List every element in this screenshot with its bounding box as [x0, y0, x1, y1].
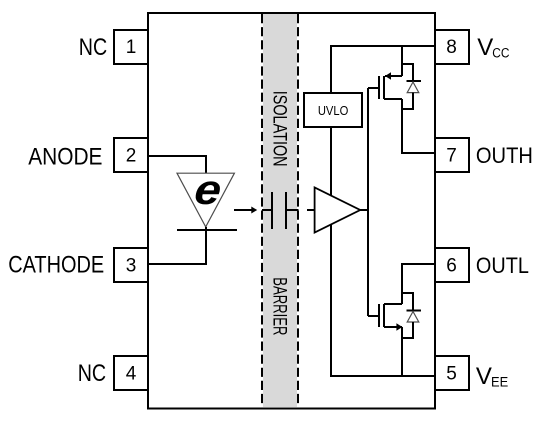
- svg-text:CATHODE: CATHODE: [8, 252, 104, 279]
- emitter LED triangle: [177, 173, 234, 227]
- isolation capacitor left lead: [262, 209, 272, 211]
- svg-text:8: 8: [446, 37, 457, 58]
- isolation capacitor right plate: [285, 192, 287, 229]
- svg-text:V: V: [477, 34, 493, 61]
- high-side drain wire to OUTH: [402, 99, 435, 153]
- svg-text:CC: CC: [492, 46, 509, 61]
- pin 5 VEE label: [476, 363, 508, 390]
- VCC rail wire: [331, 46, 435, 93]
- high-side body diode branch wire: [402, 64, 413, 81]
- high-side body diode triangle: [407, 82, 419, 93]
- light emission arrow: [234, 207, 257, 214]
- pin 4 box: [114, 356, 148, 390]
- isolation barrier left dashed line: [261, 14, 263, 407]
- high-side gate lead: [368, 87, 379, 89]
- svg-text:3: 3: [126, 256, 137, 277]
- pin 5 box: [435, 356, 469, 390]
- pin 1 box: [114, 30, 148, 64]
- svg-text:OUTL: OUTL: [476, 253, 529, 278]
- high-side MOSFET channel: [383, 76, 385, 99]
- low-side source stub: [384, 326, 402, 328]
- svg-text:UVLO: UVLO: [318, 104, 349, 118]
- high-side source stub: [385, 75, 402, 77]
- low-side drain stub: [384, 303, 402, 305]
- isolation capacitor left plate: [271, 192, 273, 229]
- svg-text:EE: EE: [491, 375, 508, 390]
- LED cathode bar: [177, 229, 237, 231]
- svg-text:V: V: [476, 363, 492, 390]
- svg-text:4: 4: [126, 364, 137, 385]
- svg-text:6: 6: [446, 256, 457, 277]
- svg-text:ISOLATION: ISOLATION: [269, 91, 291, 167]
- low-side MOSFET gate bar: [378, 304, 380, 327]
- gate bus wire: [367, 88, 369, 316]
- low-side body diode anode wire: [402, 322, 413, 338]
- low-side gate lead: [368, 315, 379, 317]
- high-side drain stub: [384, 98, 402, 100]
- low-side MOSFET channel: [383, 304, 385, 327]
- high-side body diode anode wire: [402, 93, 413, 109]
- high-side source arrow: [385, 72, 391, 80]
- isolation barrier band fill: [263, 14, 297, 407]
- isolation barrier right dashed line: [297, 14, 299, 407]
- high-side MOSFET gate bar: [378, 76, 380, 99]
- svg-text:BARRIER: BARRIER: [269, 277, 290, 335]
- svg-text:NC: NC: [79, 34, 107, 61]
- low-side body diode cathode bar: [407, 310, 422, 312]
- svg-text:ANODE: ANODE: [28, 144, 102, 171]
- svg-text:1: 1: [126, 37, 137, 58]
- isolation capacitor right lead: [286, 209, 299, 211]
- svg-text:5: 5: [446, 364, 457, 385]
- pin 8 VCC label: [477, 34, 510, 61]
- low-side body diode branch wire: [402, 293, 413, 311]
- low-side drain wire from OUTL: [402, 264, 435, 304]
- svg-text:7: 7: [446, 146, 457, 167]
- driver amplifier triangle: [315, 188, 361, 233]
- wire anode from pin2: [148, 156, 206, 173]
- high-side body diode cathode bar: [407, 80, 422, 82]
- svg-text:2: 2: [126, 146, 137, 167]
- amplifier output stub: [360, 209, 368, 211]
- pin 2 box: [114, 138, 148, 172]
- IC package outline: [148, 13, 435, 409]
- pin 7 box: [435, 138, 469, 172]
- low-side body diode triangle: [407, 312, 419, 323]
- svg-text:OUTH: OUTH: [476, 143, 533, 168]
- pin 6 box: [435, 248, 469, 282]
- low-side source arrow: [396, 323, 402, 331]
- svg-text:NC: NC: [78, 360, 106, 387]
- high-side source drop wire: [401, 46, 403, 76]
- UVLO block: [304, 93, 362, 127]
- amplifier input stub: [307, 209, 315, 211]
- pin 3 box: [114, 248, 148, 282]
- low-side source wire to VEE: [401, 327, 403, 376]
- UVLO to VEE wire: [331, 127, 435, 376]
- pin 8 box: [435, 30, 469, 64]
- wire cathode to pin3: [148, 227, 206, 264]
